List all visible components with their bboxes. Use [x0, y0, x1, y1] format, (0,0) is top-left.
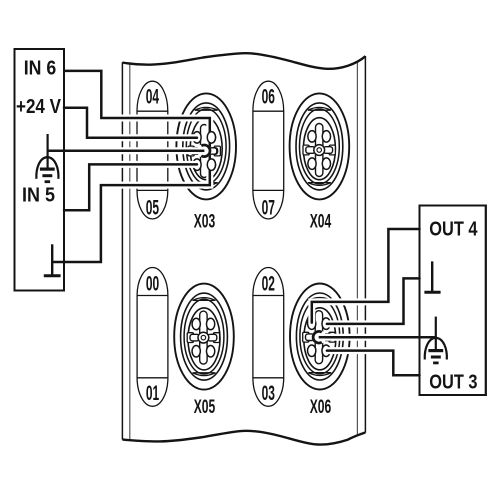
- svg-text:X04: X04: [310, 210, 332, 232]
- svg-text:06: 06: [262, 86, 275, 109]
- svg-text:X06: X06: [310, 396, 332, 418]
- svg-text:OUT 3: OUT 3: [429, 371, 477, 393]
- svg-text:X05: X05: [194, 396, 216, 418]
- svg-text:00: 00: [146, 273, 159, 296]
- svg-text:+24 V: +24 V: [16, 96, 61, 118]
- svg-text:X03: X03: [194, 210, 216, 232]
- svg-text:03: 03: [262, 382, 275, 405]
- svg-text:IN 5: IN 5: [22, 184, 55, 206]
- svg-text:02: 02: [262, 273, 275, 296]
- svg-text:07: 07: [262, 196, 275, 219]
- svg-text:IN 6: IN 6: [24, 57, 57, 79]
- svg-text:01: 01: [146, 382, 159, 405]
- svg-text:04: 04: [146, 86, 159, 109]
- svg-text:05: 05: [146, 196, 159, 219]
- svg-text:OUT 4: OUT 4: [429, 218, 478, 240]
